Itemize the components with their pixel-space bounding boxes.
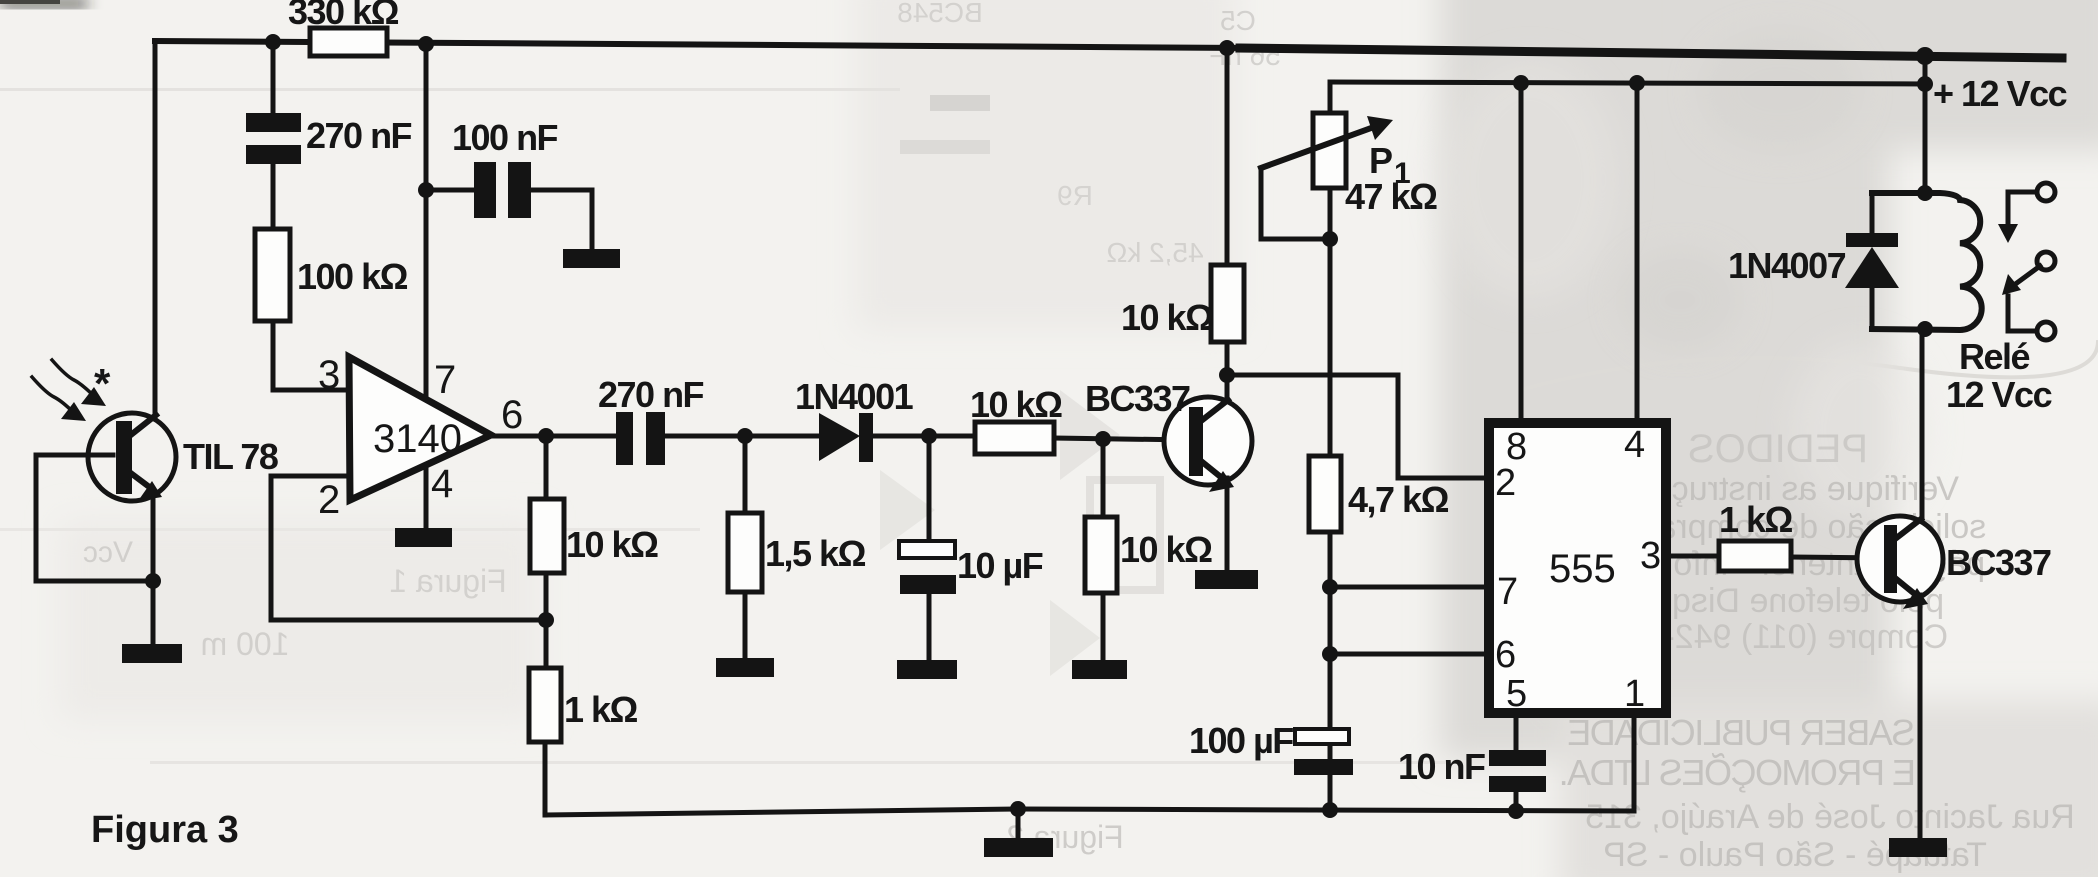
relay contact movable xyxy=(2037,252,2055,270)
svg-text:1N4001: 1N4001 xyxy=(795,376,914,417)
node P1 wiper junction xyxy=(1322,231,1338,247)
svg-text:12 Vcc: 12 Vcc xyxy=(1946,374,2052,415)
ground Q2 emitter xyxy=(1889,838,1947,857)
wire relay left branch xyxy=(1870,196,1875,326)
relay contact fixed top xyxy=(2037,183,2055,201)
node pin6 junction xyxy=(1322,646,1338,662)
op-amp 3140 xyxy=(349,357,491,500)
resistor 10 kOhm (base) xyxy=(975,422,1054,454)
capacitor 10 nF xyxy=(1489,750,1546,766)
svg-text:Relé: Relé xyxy=(1959,336,2030,377)
capacitor 270 nF (input) xyxy=(246,113,301,132)
wire feedback to pin 2 xyxy=(271,476,546,620)
svg-text:*: * xyxy=(94,360,111,407)
svg-text:C5: C5 xyxy=(1220,5,1256,36)
node +12V rail drop xyxy=(1916,47,1934,65)
svg-text:BC548: BC548 xyxy=(897,0,983,28)
light arrow 2 xyxy=(32,377,74,413)
resistor 1,5 kOhm xyxy=(728,513,762,592)
resistor 10 kOhm (collector load) xyxy=(1211,265,1244,342)
capacitor 270 nF (coupling) xyxy=(616,412,633,465)
diode 1N4001 xyxy=(819,413,860,461)
node Q1 collector junction xyxy=(1219,367,1235,383)
diode 1N4007 xyxy=(1846,233,1898,247)
wire 10k upper lead xyxy=(544,436,549,500)
svg-text:330 kΩ: 330 kΩ xyxy=(288,0,399,32)
resistor 1 kOhm (emitter chain) xyxy=(529,668,561,742)
node 100nF tap xyxy=(418,182,434,198)
wire 10k pulldown lower xyxy=(1101,593,1106,662)
wire collector drop TIL78 xyxy=(153,41,158,418)
wire diode to 10k xyxy=(873,434,977,439)
transistor BC337 Q2 xyxy=(1857,516,1943,609)
node pin7 junction xyxy=(1322,579,1338,595)
node relay bottom xyxy=(1917,321,1933,337)
node top rail collector load xyxy=(1219,40,1235,56)
wire P1 wiper loop xyxy=(1261,168,1330,239)
wire cap to diode xyxy=(665,434,822,439)
svg-text:2: 2 xyxy=(1495,462,1516,504)
wire 10k pulldown upper xyxy=(1101,439,1106,518)
svg-text:BC337: BC337 xyxy=(1085,378,1190,419)
svg-text:E PROMOÇÕES LTDA.: E PROMOÇÕES LTDA. xyxy=(1560,752,1916,793)
wire Q1 emitter down xyxy=(1225,478,1230,572)
svg-text:10 nF: 10 nF xyxy=(1398,746,1485,787)
wire TIL78 emitter down xyxy=(151,489,156,646)
svg-text:3140: 3140 xyxy=(373,417,462,461)
wire pin7 drop xyxy=(424,44,429,400)
wire 10k lower lead xyxy=(544,573,549,622)
svg-text:7: 7 xyxy=(434,358,456,402)
relay blade xyxy=(2010,266,2040,288)
node 1.5k tap xyxy=(737,428,753,444)
wire 100nF left lead xyxy=(426,188,476,193)
P1 wiper arrow xyxy=(1261,127,1374,168)
capacitor 10 uF electrolytic xyxy=(899,541,955,558)
svg-text:3: 3 xyxy=(318,353,340,397)
resistor 1 kOhm (base Q2) xyxy=(1719,541,1791,571)
svg-text:555: 555 xyxy=(1549,547,1616,591)
node pin 8 rail xyxy=(1513,75,1529,91)
node 100uF bottom rail xyxy=(1322,802,1338,818)
wire to 555 pin 7 xyxy=(1330,585,1486,590)
wire bottom ground rail xyxy=(545,809,1634,815)
wire P1 bottom lead xyxy=(1328,188,1333,239)
svg-text:PEDIDOS: PEDIDOS xyxy=(1688,427,1868,471)
svg-text:SABER PUBLICIDADE: SABER PUBLICIDADE xyxy=(1568,712,1915,753)
node TIL78 emitter/base loop xyxy=(145,573,161,589)
wire Q2 collector to relay xyxy=(1920,330,1925,519)
wire 555 pin 1 to bottom rail xyxy=(1632,713,1637,811)
svg-text:10 kΩ: 10 kΩ xyxy=(1121,297,1213,338)
node 10nF bottom rail xyxy=(1508,803,1524,819)
svg-text:5: 5 xyxy=(1506,673,1527,715)
node second rail junction xyxy=(1917,76,1933,92)
capacitor 100 uF xyxy=(1295,729,1349,744)
wire +12V top rail left xyxy=(155,41,1245,48)
svg-text:100 µF: 100 µF xyxy=(1189,720,1293,761)
wire op-amp output xyxy=(490,434,618,439)
resistor 330 kOhm xyxy=(310,28,387,56)
ground bottom rail xyxy=(984,838,1053,857)
phototransistor TIL78 xyxy=(88,413,176,501)
svg-text:7: 7 xyxy=(1497,571,1518,613)
svg-text:100 m: 100 m xyxy=(201,626,290,662)
wire 10uF lower lead xyxy=(927,594,932,662)
node 10k pulldown tap xyxy=(1095,431,1111,447)
wire +12V top rail right (thick) xyxy=(1240,48,2062,58)
capacitor 100 nF xyxy=(474,162,496,218)
ground 10k pulldown xyxy=(1072,660,1127,679)
ground TIL78 xyxy=(122,644,182,663)
wire Q2 emitter to ground xyxy=(1918,595,1923,840)
IC 555 xyxy=(1489,423,1666,713)
svg-text:270 nF: 270 nF xyxy=(598,374,704,415)
wire +12V drop to relay xyxy=(1923,56,1928,194)
svg-text:47 kΩ: 47 kΩ xyxy=(1345,176,1437,217)
svg-text:4: 4 xyxy=(1624,424,1645,466)
wire Q1 collector to 555 pin 2 xyxy=(1227,375,1486,478)
relay actuation arrow xyxy=(2008,192,2037,228)
svg-text:Figura 1: Figura 1 xyxy=(389,563,506,599)
svg-text:1N4007: 1N4007 xyxy=(1728,245,1846,286)
wire Q1 collector up xyxy=(1225,377,1230,400)
node relay top xyxy=(1917,185,1933,201)
node feedback junction xyxy=(538,612,554,628)
node top rail / pin7 drop xyxy=(418,36,434,52)
wire second +12V rail xyxy=(1330,82,1925,84)
light arrow 1 xyxy=(52,360,96,398)
wire 1.5k upper lead xyxy=(743,436,748,514)
transistor BC337 Q1 xyxy=(1164,397,1252,492)
wire 10k to base xyxy=(1054,438,1190,440)
relay contact fixed bottom xyxy=(2037,322,2055,340)
svg-text:P: P xyxy=(1369,140,1392,181)
svg-text:270 nF: 270 nF xyxy=(306,115,412,156)
svg-text:TIL 78: TIL 78 xyxy=(183,436,278,477)
resistor 10 kOhm (pulldown) xyxy=(1085,517,1117,593)
wire 10nF to bottom rail xyxy=(1514,792,1519,811)
node 10uF tap xyxy=(921,428,937,444)
node top rail / 270nF branch xyxy=(265,34,281,50)
wire pin4 to ground xyxy=(424,470,429,530)
wire to 555 pin 6 xyxy=(1330,652,1486,657)
svg-text:BC337: BC337 xyxy=(1946,542,2051,583)
svg-text:100 nF: 100 nF xyxy=(452,117,558,158)
wire 270nF branch xyxy=(273,42,349,390)
wire P1 top lead xyxy=(1328,82,1333,114)
wire 555 pin 8 supply xyxy=(1519,83,1524,422)
svg-text:4,7 kΩ: 4,7 kΩ xyxy=(1348,479,1449,520)
wire 1.5k lower lead xyxy=(743,592,748,660)
svg-text:1 kΩ: 1 kΩ xyxy=(564,689,638,730)
wire TIL78 base loop xyxy=(36,455,150,581)
wire 10k collector load lower xyxy=(1225,342,1230,375)
svg-text:1 kΩ: 1 kΩ xyxy=(1719,499,1793,540)
svg-text:Figura 3: Figura 3 xyxy=(91,809,239,851)
svg-text:45,2 kΩ: 45,2 kΩ xyxy=(1106,237,1203,268)
svg-text:10 kΩ: 10 kΩ xyxy=(566,524,658,565)
relay common wire xyxy=(2008,296,2036,331)
ground op-amp pin4 xyxy=(395,528,452,547)
svg-text:1: 1 xyxy=(1624,673,1645,715)
wire 10k collector load upper xyxy=(1225,48,1230,265)
svg-text:10 µF: 10 µF xyxy=(957,545,1043,586)
ground 10uF xyxy=(897,660,957,679)
svg-text:+ 12 Vcc: + 12 Vcc xyxy=(1933,73,2067,114)
wire ground stem xyxy=(1016,809,1021,840)
potentiometer P1 47 kOhm xyxy=(1313,113,1346,188)
resistor 4,7 kOhm xyxy=(1309,456,1341,532)
svg-text:Rua Jacinto José de Araújo, 31: Rua Jacinto José de Araújo, 315 xyxy=(1585,798,2075,836)
svg-text:R9: R9 xyxy=(1057,180,1093,211)
svg-text:Vcc: Vcc xyxy=(83,536,133,569)
svg-text:6: 6 xyxy=(501,393,523,437)
ground 1.5k xyxy=(716,658,774,677)
resistor 100 kOhm xyxy=(255,229,290,321)
wire 4.7k to bottom rail xyxy=(1328,532,1333,811)
svg-text:10 kΩ: 10 kΩ xyxy=(970,384,1062,425)
svg-text:3: 3 xyxy=(1640,535,1661,577)
svg-text:100 kΩ: 100 kΩ xyxy=(297,256,408,297)
relay coil K1 xyxy=(1872,193,1982,330)
wire 100nF right lead xyxy=(531,190,592,250)
svg-text:2: 2 xyxy=(318,478,340,522)
svg-text:10 kΩ: 10 kΩ xyxy=(1120,529,1212,570)
wire 555 pin 3 output xyxy=(1666,554,1721,559)
resistor 10 kOhm (feedback) xyxy=(530,499,564,573)
wire 10uF lead xyxy=(927,436,932,543)
node pin 4 rail xyxy=(1629,75,1645,91)
wire 1k upper lead xyxy=(544,620,549,669)
wire 555 pin 5 to 10nF xyxy=(1514,713,1519,752)
node bottom rail ground tap xyxy=(1010,801,1026,817)
svg-text:4: 4 xyxy=(431,462,453,506)
wire 555 pin 4 supply xyxy=(1635,83,1640,422)
ground 100nF xyxy=(563,249,620,268)
wire 1k to Q2 base xyxy=(1791,557,1885,558)
svg-text:1,5 kΩ: 1,5 kΩ xyxy=(765,533,866,574)
node output / 10k tap xyxy=(538,428,554,444)
wire P1 to 4.7k xyxy=(1328,239,1333,457)
svg-text:6: 6 xyxy=(1495,634,1516,676)
wire 1k to bottom rail xyxy=(543,742,548,815)
ground Q1 emitter xyxy=(1195,570,1258,589)
